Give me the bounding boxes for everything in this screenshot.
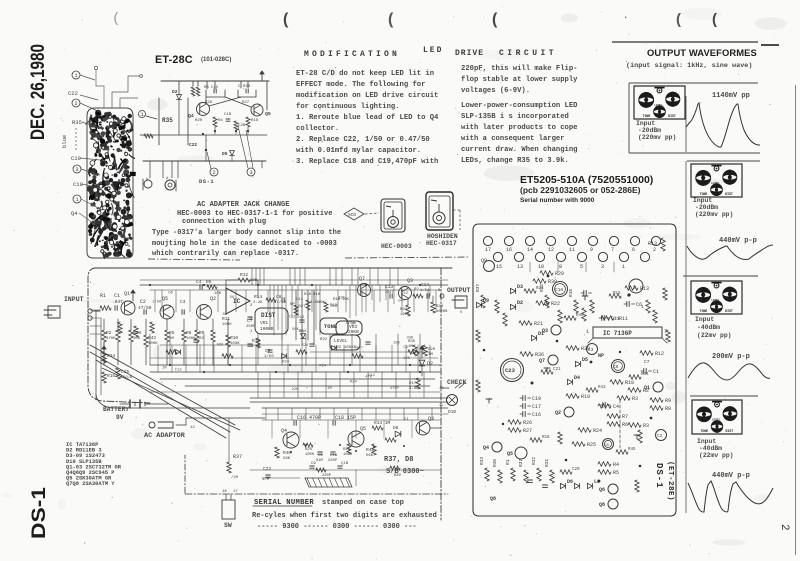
svg-text:C1B: C1B bbox=[224, 113, 232, 117]
svg-text:with later products to cope: with later products to cope bbox=[461, 124, 577, 132]
svg-text:C3: C3 bbox=[588, 347, 594, 353]
svg-text:2. Replace C22, 1/50 or 0.47: 2. Replace C22, 1/50 or 0.47/50 bbox=[296, 136, 430, 144]
svg-text:D6: D6 bbox=[230, 296, 235, 300]
svg-text:(: ( bbox=[712, 11, 717, 28]
svg-text:R16: R16 bbox=[304, 293, 312, 297]
svg-text:(220mv pp): (220mv pp) bbox=[638, 134, 676, 141]
svg-text:VR1: VR1 bbox=[260, 320, 268, 326]
svg-text:(: ( bbox=[676, 11, 681, 28]
svg-text:R21: R21 bbox=[534, 321, 543, 327]
svg-text:Q3: Q3 bbox=[542, 328, 548, 334]
svg-text:.047: .047 bbox=[112, 299, 123, 305]
svg-text:R12: R12 bbox=[655, 351, 664, 357]
svg-text:C2B: C2B bbox=[238, 124, 246, 128]
svg-text:1L: 1L bbox=[439, 404, 444, 408]
svg-text:/20: /20 bbox=[231, 475, 239, 480]
svg-text:for continuous lighting.: for continuous lighting. bbox=[296, 103, 400, 111]
svg-text:1140mV pp: 1140mV pp bbox=[712, 92, 750, 100]
svg-text:R32: R32 bbox=[531, 457, 537, 465]
svg-text:DEC. 26,1980: DEC. 26,1980 bbox=[28, 44, 49, 140]
svg-text:33K: 33K bbox=[406, 336, 414, 340]
svg-text:R45: R45 bbox=[628, 448, 636, 452]
svg-text:Q4: Q4 bbox=[188, 113, 194, 119]
svg-text:HEC-0317: HEC-0317 bbox=[426, 240, 457, 247]
svg-text:R40: R40 bbox=[283, 450, 291, 456]
svg-text:Q7Q8 2SA30ATM Y: Q7Q8 2SA30ATM Y bbox=[66, 481, 115, 487]
svg-text:Q8: Q8 bbox=[490, 496, 496, 502]
svg-text:Q1: Q1 bbox=[644, 385, 650, 391]
svg-text:LED: LED bbox=[423, 46, 443, 55]
svg-text:LEVEL: LEVEL bbox=[711, 182, 720, 185]
svg-text:D9: D9 bbox=[483, 298, 489, 304]
svg-text:440mV p-p: 440mV p-p bbox=[712, 472, 750, 480]
svg-text:(pcb 2291032605 or 052-286E): (pcb 2291032605 or 052-286E) bbox=[520, 185, 641, 195]
svg-text:Q2: Q2 bbox=[210, 296, 216, 302]
svg-text:NP: NP bbox=[598, 353, 604, 359]
svg-text:R1: R1 bbox=[100, 293, 106, 299]
svg-text:7: 7 bbox=[611, 247, 614, 253]
svg-text:R31: R31 bbox=[400, 308, 408, 312]
svg-text:MODIFICATION: MODIFICATION bbox=[304, 50, 400, 59]
svg-text:1M: 1M bbox=[351, 322, 356, 326]
svg-text:C3: C3 bbox=[180, 299, 186, 305]
svg-text:DIST: DIST bbox=[726, 429, 734, 433]
svg-text:R5: R5 bbox=[613, 470, 619, 476]
svg-text:(: ( bbox=[388, 11, 394, 28]
svg-text:200mV p-p: 200mV p-p bbox=[712, 353, 750, 361]
svg-text:100P: 100P bbox=[400, 313, 410, 317]
svg-text:1M: 1M bbox=[327, 387, 332, 391]
svg-text:10K: 10K bbox=[393, 341, 401, 345]
svg-text:220P: 220P bbox=[322, 474, 332, 478]
svg-text:R18: R18 bbox=[542, 436, 550, 440]
svg-text:8: 8 bbox=[559, 264, 562, 270]
svg-text:D4: D4 bbox=[574, 375, 580, 381]
svg-text:.047: .047 bbox=[329, 305, 338, 309]
svg-text:47/50: 47/50 bbox=[274, 300, 287, 305]
svg-text:D6: D6 bbox=[168, 291, 173, 295]
svg-text:16: 16 bbox=[222, 490, 227, 494]
svg-text:R37: R37 bbox=[475, 284, 481, 292]
svg-text:R31: R31 bbox=[544, 459, 550, 467]
svg-text:Q7: Q7 bbox=[539, 358, 545, 364]
svg-text:D5: D5 bbox=[582, 357, 588, 363]
svg-text:C2: C2 bbox=[140, 299, 146, 305]
svg-text:D6: D6 bbox=[223, 313, 228, 317]
svg-text:IC 7136P: IC 7136P bbox=[603, 330, 632, 337]
svg-text:LEVEL: LEVEL bbox=[654, 104, 663, 107]
svg-text:D3: D3 bbox=[517, 284, 523, 290]
svg-text:VR2: VR2 bbox=[334, 346, 342, 350]
svg-text:12: 12 bbox=[190, 426, 195, 430]
svg-text:R24: R24 bbox=[593, 428, 602, 434]
svg-text:100K: 100K bbox=[222, 323, 232, 327]
svg-text:100K: 100K bbox=[148, 342, 158, 346]
svg-text:R1: R1 bbox=[505, 459, 511, 465]
svg-text:R25: R25 bbox=[587, 442, 596, 448]
svg-text:5: 5 bbox=[580, 264, 583, 270]
svg-text:103K: 103K bbox=[230, 342, 240, 346]
svg-text:DIST: DIST bbox=[725, 192, 733, 196]
svg-text:9V: 9V bbox=[116, 414, 124, 421]
svg-text:Q3: Q3 bbox=[407, 278, 413, 284]
svg-text:3: 3 bbox=[601, 264, 604, 270]
svg-text:R37: R37 bbox=[518, 459, 524, 467]
svg-text:2.2K: 2.2K bbox=[253, 301, 263, 305]
svg-text:1: 1 bbox=[586, 329, 589, 335]
svg-text:R16: R16 bbox=[568, 289, 574, 297]
svg-text:R37: R37 bbox=[233, 454, 242, 460]
svg-text:D6: D6 bbox=[567, 479, 573, 485]
svg-text:R14: R14 bbox=[254, 294, 262, 300]
svg-text:9: 9 bbox=[590, 247, 593, 253]
svg-text:LEVEL: LEVEL bbox=[712, 418, 721, 421]
svg-text:R33: R33 bbox=[479, 457, 485, 465]
svg-text:C14: C14 bbox=[421, 282, 429, 288]
svg-text:1: 1 bbox=[641, 304, 644, 310]
svg-text:C4: C4 bbox=[613, 404, 619, 410]
svg-text:D5: D5 bbox=[222, 151, 228, 157]
svg-text:01M: 01M bbox=[316, 459, 324, 463]
svg-text:SCO: SCO bbox=[348, 212, 356, 218]
svg-text:C18: C18 bbox=[73, 181, 83, 188]
svg-text:Input: Input bbox=[697, 438, 716, 445]
svg-text:22: 22 bbox=[199, 337, 204, 341]
svg-text:----- 9300 ------ 0300 ------: ----- 9300 ------ 0300 ------ 0300 --- bbox=[257, 523, 417, 531]
svg-text:LEVEL: LEVEL bbox=[334, 338, 348, 344]
svg-text:C11: C11 bbox=[296, 298, 304, 302]
svg-text:1/50: 1/50 bbox=[420, 288, 430, 293]
svg-text:Input: Input bbox=[695, 316, 714, 323]
svg-text:Input: Input bbox=[636, 120, 655, 127]
svg-text:R29: R29 bbox=[555, 271, 564, 277]
svg-text:DIST: DIST bbox=[261, 312, 276, 319]
svg-text:CHECK: CHECK bbox=[447, 379, 467, 386]
svg-text:R3: R3 bbox=[643, 423, 649, 429]
svg-text:2: 2 bbox=[212, 169, 215, 176]
svg-text:C2: C2 bbox=[657, 433, 663, 439]
svg-text:C8: C8 bbox=[604, 444, 609, 448]
svg-text:R4: R4 bbox=[218, 119, 223, 123]
svg-text:C11: C11 bbox=[611, 316, 620, 322]
svg-text:C6: C6 bbox=[613, 364, 619, 370]
svg-text:Q5: Q5 bbox=[265, 111, 271, 117]
svg-text:Serial number with 9000: Serial number with 9000 bbox=[520, 197, 595, 204]
svg-text:R2: R2 bbox=[106, 330, 112, 336]
svg-text:1/50: 1/50 bbox=[152, 300, 162, 305]
svg-text:(: ( bbox=[492, 11, 498, 28]
svg-text:Lower-power-consumption LED: Lower-power-consumption LED bbox=[461, 102, 578, 110]
svg-text:DIST: DIST bbox=[725, 309, 733, 313]
svg-text:1M: 1M bbox=[408, 345, 413, 349]
svg-text:R22: R22 bbox=[551, 301, 560, 307]
svg-text:Q6: Q6 bbox=[599, 487, 605, 493]
svg-text:R35: R35 bbox=[162, 117, 173, 124]
svg-text:R23: R23 bbox=[436, 305, 444, 309]
svg-text:modification on LED drive circ: modification on LED drive circuit bbox=[296, 92, 438, 100]
svg-text:.047: .047 bbox=[354, 347, 363, 351]
svg-text:100K: 100K bbox=[343, 453, 353, 457]
svg-text:OUTPUT WAVEFORMES: OUTPUT WAVEFORMES bbox=[647, 47, 757, 58]
svg-text:C22: C22 bbox=[263, 466, 271, 472]
svg-text:R26: R26 bbox=[523, 420, 532, 426]
svg-text:Q4: Q4 bbox=[281, 428, 287, 434]
svg-text:R20: R20 bbox=[428, 348, 436, 352]
svg-text:C12: C12 bbox=[289, 315, 297, 319]
svg-text:17: 17 bbox=[485, 247, 491, 253]
svg-text:R22: R22 bbox=[320, 338, 328, 342]
svg-text:56K: 56K bbox=[292, 328, 300, 332]
svg-text:20KB: 20KB bbox=[348, 329, 359, 335]
svg-text:-20dBm: -20dBm bbox=[695, 204, 718, 211]
svg-text:12: 12 bbox=[548, 247, 554, 253]
svg-text:ET-28 C/D do not keep LED lit: ET-28 C/D do not keep LED lit in bbox=[296, 70, 434, 78]
svg-text:C1: C1 bbox=[653, 369, 659, 375]
svg-text:stamped on case top: stamped on case top bbox=[322, 499, 404, 507]
svg-text:Q7: Q7 bbox=[359, 276, 365, 282]
svg-text:voltages (6-9V).: voltages (6-9V). bbox=[461, 87, 530, 95]
svg-text:27K: 27K bbox=[250, 279, 258, 283]
svg-text:Input: Input bbox=[693, 197, 712, 204]
svg-text:R23: R23 bbox=[536, 287, 544, 291]
svg-text:R15: R15 bbox=[613, 292, 621, 296]
svg-text:R27: R27 bbox=[523, 428, 532, 434]
svg-text:R8: R8 bbox=[665, 406, 671, 412]
svg-text:OUTPUT: OUTPUT bbox=[447, 287, 471, 294]
svg-text:R15: R15 bbox=[107, 373, 115, 379]
svg-text:-20dBm: -20dBm bbox=[638, 127, 661, 134]
svg-text:(22mv pp): (22mv pp) bbox=[697, 332, 732, 339]
svg-text:CIRCUIT: CIRCUIT bbox=[499, 49, 557, 58]
svg-text:C8: C8 bbox=[276, 294, 282, 300]
svg-text:1: 1 bbox=[622, 264, 625, 270]
svg-text:3: 3 bbox=[633, 285, 636, 291]
svg-text:TONE: TONE bbox=[643, 114, 651, 118]
svg-text:-40dBm: -40dBm bbox=[697, 324, 720, 331]
svg-text:-40dBm: -40dBm bbox=[699, 445, 722, 452]
svg-text:R6: R6 bbox=[622, 422, 628, 428]
svg-text:C1: C1 bbox=[114, 293, 120, 299]
svg-text:Q8: Q8 bbox=[599, 502, 605, 508]
svg-text:R20: R20 bbox=[195, 119, 203, 123]
svg-text:C15: C15 bbox=[211, 86, 219, 90]
svg-text:(220mv pp): (220mv pp) bbox=[695, 211, 733, 218]
svg-text:Q1: Q1 bbox=[124, 291, 130, 297]
svg-text:Q5: Q5 bbox=[507, 451, 513, 457]
svg-text:Q5: Q5 bbox=[360, 426, 366, 432]
svg-text:R30: R30 bbox=[492, 459, 498, 467]
svg-text:HEC-0003 to HEC-0317-1-1 for p: HEC-0003 to HEC-0317-1-1 for positive bbox=[177, 210, 332, 218]
svg-text:Q5: Q5 bbox=[162, 296, 168, 302]
svg-text:C17: C17 bbox=[532, 404, 541, 410]
svg-text:3: 3 bbox=[75, 166, 78, 173]
svg-text:R18: R18 bbox=[300, 330, 308, 334]
svg-text:EFFECT mode. The following: EFFECT mode. The following for bbox=[296, 81, 425, 89]
svg-text:DRIVE: DRIVE bbox=[455, 49, 484, 58]
svg-text:LEDs, change R35 to 3.9k.: LEDs, change R35 to 3.9k. bbox=[461, 157, 569, 165]
svg-text:R9: R9 bbox=[665, 398, 671, 404]
svg-text:HEC-0003: HEC-0003 bbox=[381, 243, 412, 250]
svg-text:R7: R7 bbox=[622, 414, 628, 420]
svg-text:LEVEL: LEVEL bbox=[711, 299, 720, 302]
svg-text:C19: C19 bbox=[532, 396, 541, 402]
svg-text:10K: 10K bbox=[133, 337, 141, 341]
svg-text:56K: 56K bbox=[366, 454, 374, 458]
svg-text:C1B: C1B bbox=[341, 462, 349, 466]
svg-text:TONE: TONE bbox=[700, 309, 708, 313]
svg-text:C20: C20 bbox=[572, 468, 580, 472]
svg-text:which contrarily can replace -: which contrarily can replace -0317. bbox=[152, 250, 299, 258]
svg-text:current draw. When changing: current draw. When changing bbox=[461, 146, 577, 154]
svg-text:470P: 470P bbox=[390, 387, 400, 391]
svg-text:D2: D2 bbox=[517, 300, 523, 306]
svg-text:R25: R25 bbox=[305, 448, 313, 452]
svg-text:(: ( bbox=[283, 11, 289, 28]
svg-text:C9: C9 bbox=[311, 462, 316, 466]
svg-text:S/B 0300~: S/B 0300~ bbox=[386, 468, 424, 476]
svg-text:collector.: collector. bbox=[296, 125, 339, 133]
svg-text:AC ADAPTER JACK CHANGE: AC ADAPTER JACK CHANGE bbox=[197, 201, 289, 209]
svg-text:33K: 33K bbox=[338, 296, 346, 300]
svg-text:R42: R42 bbox=[148, 335, 156, 341]
svg-text:2: 2 bbox=[778, 524, 790, 531]
svg-text:C22: C22 bbox=[68, 90, 78, 97]
svg-text:56K: 56K bbox=[283, 457, 291, 461]
svg-text:47/50: 47/50 bbox=[138, 305, 152, 311]
svg-text:11: 11 bbox=[569, 247, 575, 253]
svg-text:(ET-28E): (ET-28E) bbox=[666, 461, 674, 501]
svg-text:R10: R10 bbox=[625, 380, 634, 386]
svg-text:Q2: Q2 bbox=[555, 410, 561, 416]
svg-text:R4: R4 bbox=[613, 462, 619, 468]
svg-text:C13: C13 bbox=[385, 284, 393, 290]
svg-text:DIST: DIST bbox=[668, 114, 676, 118]
svg-text:connection with plug: connection with plug bbox=[182, 218, 266, 226]
svg-text:Q3: Q3 bbox=[428, 416, 434, 422]
svg-text:R24: R24 bbox=[282, 360, 290, 364]
svg-text:TONE: TONE bbox=[701, 429, 709, 433]
svg-text:R13: R13 bbox=[648, 241, 657, 247]
svg-text:R8: R8 bbox=[186, 330, 192, 336]
svg-text:(22mv pp): (22mv pp) bbox=[699, 452, 734, 459]
svg-text:15: 15 bbox=[496, 264, 502, 270]
svg-text:blue: blue bbox=[61, 135, 68, 148]
svg-text:TONE: TONE bbox=[700, 192, 708, 196]
svg-text:HOSHIDEN: HOSHIDEN bbox=[427, 233, 458, 240]
svg-text:BATTERY: BATTERY bbox=[103, 406, 129, 413]
svg-text:C12: C12 bbox=[297, 316, 305, 320]
svg-text:R10: R10 bbox=[230, 335, 238, 341]
svg-text:R12: R12 bbox=[240, 272, 248, 278]
svg-text:C23: C23 bbox=[505, 367, 516, 374]
svg-text:C7: C7 bbox=[644, 359, 650, 365]
svg-text:R18: R18 bbox=[313, 293, 321, 297]
svg-text:Q4: Q4 bbox=[483, 445, 489, 451]
svg-text:D8: D8 bbox=[393, 425, 399, 431]
svg-text:DS-1: DS-1 bbox=[28, 487, 50, 539]
svg-text:15: 15 bbox=[439, 387, 444, 391]
svg-text:C22: C22 bbox=[189, 142, 197, 148]
svg-text:R35: R35 bbox=[72, 119, 82, 126]
svg-text:DS-1: DS-1 bbox=[199, 178, 214, 185]
svg-text:R43: R43 bbox=[598, 386, 606, 390]
svg-text:2: 2 bbox=[653, 247, 656, 253]
svg-text:6: 6 bbox=[632, 247, 635, 253]
svg-text:2: 2 bbox=[74, 100, 77, 107]
svg-text:R14 1M: R14 1M bbox=[374, 420, 391, 426]
svg-text:DS-1: DS-1 bbox=[654, 463, 664, 489]
svg-text:R28: R28 bbox=[243, 85, 251, 89]
svg-text:C6: C6 bbox=[265, 348, 271, 354]
svg-text:D10: D10 bbox=[448, 409, 456, 415]
svg-text:(: ( bbox=[112, 11, 120, 27]
svg-text:moujting hole in the case dedi: moujting hole in the case dedicated to -… bbox=[152, 240, 337, 248]
svg-text:3.9K: 3.9K bbox=[409, 387, 419, 391]
svg-text:7: 7 bbox=[664, 329, 667, 335]
svg-text:3. Replace C18 and C19,470pF w: 3. Replace C18 and C19,470pF with bbox=[296, 158, 438, 166]
svg-text:1M: 1M bbox=[162, 366, 167, 370]
svg-text:100K: 100K bbox=[305, 453, 315, 457]
svg-text:R19: R19 bbox=[581, 394, 590, 400]
svg-text:flop stable at lower supply: flop stable at lower supply bbox=[461, 76, 578, 84]
svg-text:14: 14 bbox=[527, 247, 533, 253]
svg-text:C19: C19 bbox=[71, 155, 81, 162]
svg-text:100KB: 100KB bbox=[260, 326, 274, 332]
svg-text:440mV p-p: 440mV p-p bbox=[719, 237, 757, 245]
svg-text:.: . bbox=[623, 11, 628, 21]
svg-text:10: 10 bbox=[538, 264, 544, 270]
svg-text:R37, D8: R37, D8 bbox=[384, 456, 413, 464]
svg-text:.047: .047 bbox=[396, 300, 405, 304]
svg-text:Q9: Q9 bbox=[481, 258, 487, 264]
svg-text:with 0.01mfd mylar capacitor.: with 0.01mfd mylar capacitor. bbox=[296, 147, 421, 155]
svg-text:SW: SW bbox=[224, 522, 232, 529]
svg-text:1. Reroute blue lead of LED to: 1. Reroute blue lead of LED to Q4 bbox=[296, 114, 439, 122]
svg-text:C16: C16 bbox=[532, 412, 541, 418]
svg-text:220P: 220P bbox=[328, 459, 338, 463]
svg-text:C21: C21 bbox=[553, 368, 561, 372]
svg-text:56K: 56K bbox=[217, 343, 225, 347]
svg-text:C18: C18 bbox=[555, 287, 563, 293]
svg-text:C12: C12 bbox=[401, 292, 409, 296]
svg-text:with a consequent larger: with a consequent larger bbox=[461, 135, 565, 143]
svg-text:220pF, this will make Flip-: 220pF, this will make Flip- bbox=[461, 65, 577, 73]
svg-text:(101-028C): (101-028C) bbox=[201, 57, 231, 63]
svg-text:100KB: 100KB bbox=[436, 310, 448, 314]
svg-text:10K: 10K bbox=[403, 357, 411, 361]
svg-text:R24: R24 bbox=[301, 344, 309, 348]
svg-text:R38: R38 bbox=[548, 279, 557, 285]
svg-text:3: 3 bbox=[249, 169, 252, 176]
svg-text:INPUT: INPUT bbox=[64, 296, 84, 303]
svg-text:17: 17 bbox=[233, 490, 238, 494]
svg-text:R19: R19 bbox=[251, 119, 259, 123]
svg-text:470K: 470K bbox=[106, 337, 116, 341]
svg-text:R3: R3 bbox=[632, 396, 638, 402]
svg-text:Re-cyles when first two digits: Re-cyles when first two digits are exhau… bbox=[252, 512, 437, 520]
svg-text:13: 13 bbox=[517, 264, 523, 270]
svg-text:R24: R24 bbox=[350, 380, 358, 384]
svg-text:R3: R3 bbox=[204, 86, 209, 90]
svg-text:16: 16 bbox=[506, 247, 512, 253]
svg-text:Q4: Q4 bbox=[71, 210, 78, 217]
svg-text:ET-28C: ET-28C bbox=[155, 54, 193, 66]
svg-text:R35: R35 bbox=[408, 340, 416, 344]
svg-text:.047: .047 bbox=[384, 291, 394, 295]
svg-text:Type -0317'a larger body canno: Type -0317'a larger body cannot slip int… bbox=[152, 229, 341, 237]
svg-text:AC ADAPTOR: AC ADAPTOR bbox=[144, 432, 186, 440]
svg-text:R34: R34 bbox=[641, 373, 649, 377]
